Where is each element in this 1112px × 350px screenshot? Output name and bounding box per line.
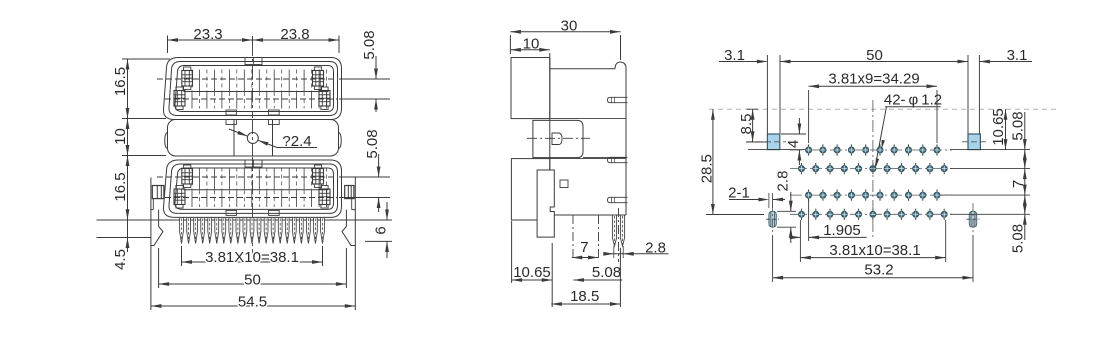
svg-text:?2.4: ?2.4 [282,133,311,150]
svg-text:30: 30 [561,18,578,35]
svg-text:3.81X10=38.1: 3.81X10=38.1 [205,249,299,266]
svg-text:1.905: 1.905 [823,222,861,239]
svg-text:10: 10 [112,128,129,145]
svg-text:3.1: 3.1 [724,47,745,64]
svg-text:5.08: 5.08 [592,264,621,281]
svg-text:54.5: 54.5 [238,293,267,310]
svg-text:5.08: 5.08 [1010,224,1027,253]
svg-text:16.5: 16.5 [112,67,129,96]
svg-text:16.5: 16.5 [112,172,129,201]
svg-text:50: 50 [244,272,261,289]
svg-text:3.1: 3.1 [1007,47,1028,64]
svg-text:2-1: 2-1 [728,185,750,202]
svg-text:10.65: 10.65 [513,264,551,281]
svg-text:3.81x9=34.29: 3.81x9=34.29 [828,71,919,88]
svg-text:53.2: 53.2 [864,262,893,279]
svg-text:4.5: 4.5 [112,249,129,270]
svg-text:5.08: 5.08 [361,30,378,59]
svg-text:23.8: 23.8 [280,26,309,43]
svg-text:2.8: 2.8 [775,171,792,192]
svg-text:50: 50 [866,47,883,64]
svg-text:42- φ 1.2: 42- φ 1.2 [884,92,942,109]
svg-text:5.08: 5.08 [1010,111,1027,140]
svg-text:4: 4 [785,140,802,148]
svg-text:6: 6 [373,226,390,234]
svg-text:3.81x10=38.1: 3.81x10=38.1 [829,242,920,259]
svg-text:23.3: 23.3 [193,26,222,43]
svg-text:7: 7 [580,239,588,256]
svg-text:10: 10 [523,36,540,53]
svg-text:18.5: 18.5 [570,288,599,305]
